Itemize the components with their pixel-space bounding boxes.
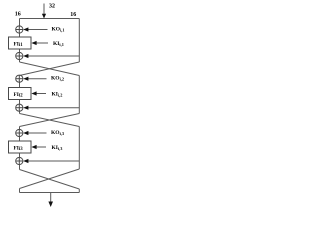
wire KI1 stub xyxy=(35,42,49,44)
wire KO3 stub xyxy=(27,132,47,134)
wire right-to-xor4 xyxy=(27,107,80,109)
input arrow 32 xyxy=(43,4,45,16)
box FIi3 xyxy=(9,141,32,153)
arrowhead KI3 xyxy=(31,145,36,149)
top split line xyxy=(20,18,80,20)
arrowhead KI2 xyxy=(31,91,36,95)
svg-text:KIi,3: KIi,3 xyxy=(52,145,63,151)
xor KO1 xyxy=(16,26,23,33)
svg-text:FIi2: FIi2 xyxy=(14,92,24,99)
arrowhead KO3 xyxy=(23,131,28,135)
arrowhead xor4 xyxy=(23,106,28,110)
arrowhead KO1 xyxy=(23,27,28,31)
svg-text:32: 32 xyxy=(49,4,55,10)
arrowhead KO2 xyxy=(23,77,28,81)
svg-text:FIi1: FIi1 xyxy=(14,41,24,48)
wire right-to-xor2 xyxy=(27,55,80,57)
arrowhead output xyxy=(48,202,53,208)
wire KI3 stub xyxy=(35,146,47,148)
arrowhead KI1 xyxy=(31,41,36,45)
right wire round2 xyxy=(78,76,80,114)
arrowhead xor2 xyxy=(23,54,28,58)
crossing 1 xyxy=(20,62,80,76)
left wire round3 xyxy=(19,127,21,170)
svg-text:KIi,1: KIi,1 xyxy=(53,41,64,47)
crossing 3 xyxy=(20,170,80,190)
svg-text:KIi,2: KIi,2 xyxy=(52,92,63,98)
xor KO2 xyxy=(16,75,23,82)
svg-text:KOi,1: KOi,1 xyxy=(52,27,65,33)
svg-text:KOi,2: KOi,2 xyxy=(51,76,64,82)
output arrow xyxy=(50,193,52,203)
svg-text:KOi,3: KOi,3 xyxy=(51,130,64,136)
arrowhead input top xyxy=(42,14,46,19)
wire KI2 stub xyxy=(35,93,47,95)
xor after FI1 xyxy=(16,52,23,59)
left branch wire xyxy=(19,19,21,63)
crossing 2 xyxy=(20,114,80,127)
xor after FI2 xyxy=(16,104,23,111)
wire right-to-xor6 xyxy=(27,160,80,162)
left wire round2 xyxy=(19,76,21,114)
box FIi1 xyxy=(9,37,32,49)
right branch wire xyxy=(78,19,80,63)
output join line xyxy=(20,192,80,194)
svg-text:FIi3: FIi3 xyxy=(14,145,24,152)
wire KO1 stub xyxy=(27,29,48,31)
box FIi2 xyxy=(9,88,32,100)
svg-text:16: 16 xyxy=(15,12,21,18)
wire KO2 stub xyxy=(27,78,47,80)
xor after FI3 xyxy=(16,157,23,164)
svg-text:16: 16 xyxy=(70,12,76,18)
xor KO3 xyxy=(16,129,23,136)
right wire round3 xyxy=(78,127,80,170)
arrowhead xor6 xyxy=(23,159,28,163)
